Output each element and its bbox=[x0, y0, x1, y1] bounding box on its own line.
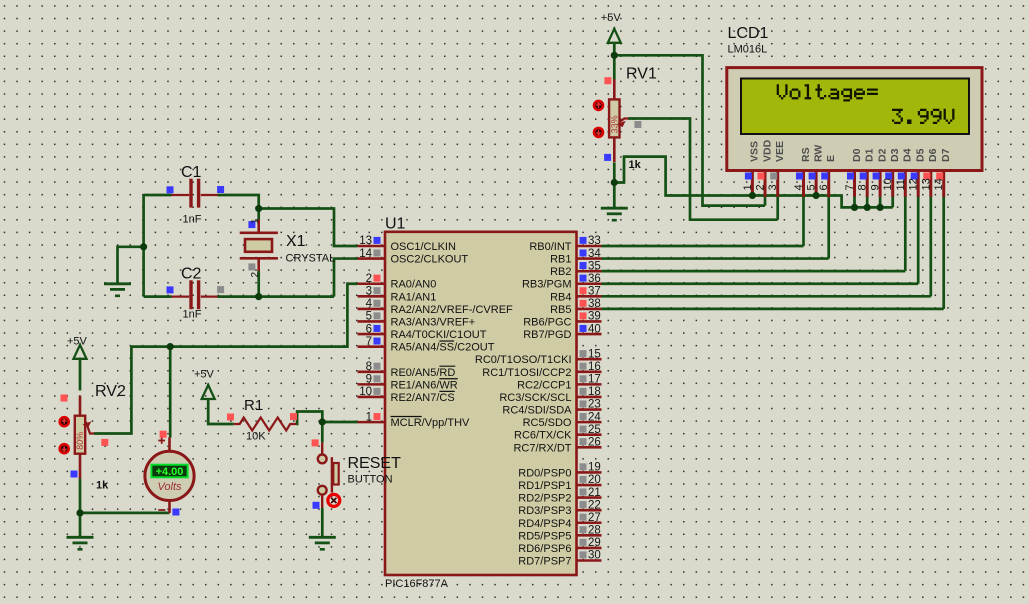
svg-text:1nF: 1nF bbox=[183, 309, 202, 321]
svg-text:D3: D3 bbox=[889, 148, 901, 162]
svg-text:VEE: VEE bbox=[774, 141, 786, 162]
svg-text:33: 33 bbox=[588, 235, 601, 247]
svg-text:RD7/PSP7: RD7/PSP7 bbox=[518, 556, 571, 568]
svg-text:RC7/RX/DT: RC7/RX/DT bbox=[513, 442, 571, 454]
svg-text:3: 3 bbox=[767, 184, 779, 190]
svg-text:9: 9 bbox=[870, 184, 882, 190]
svg-text:R1: R1 bbox=[244, 397, 263, 414]
svg-text:11: 11 bbox=[895, 179, 907, 190]
svg-text:6: 6 bbox=[818, 184, 830, 190]
svg-text:26: 26 bbox=[588, 436, 601, 448]
svg-text:35: 35 bbox=[588, 260, 601, 272]
svg-text:D0: D0 bbox=[851, 148, 863, 162]
svg-text:24: 24 bbox=[588, 411, 601, 423]
svg-text:8: 8 bbox=[366, 361, 372, 373]
svg-text:RA1/AN1: RA1/AN1 bbox=[391, 291, 437, 303]
svg-text:RD6/PSP6: RD6/PSP6 bbox=[518, 543, 571, 555]
svg-text:RD3/PSP3: RD3/PSP3 bbox=[518, 505, 571, 517]
svg-text:RE2/AN7/CS: RE2/AN7/CS bbox=[391, 392, 455, 404]
svg-text:RD5/PSP5: RD5/PSP5 bbox=[518, 530, 571, 542]
svg-text:C1: C1 bbox=[181, 164, 202, 181]
svg-text:RD1/PSP1: RD1/PSP1 bbox=[518, 480, 571, 492]
svg-text:1: 1 bbox=[742, 184, 754, 190]
svg-text:RV2: RV2 bbox=[95, 383, 126, 400]
svg-text:23: 23 bbox=[588, 399, 601, 411]
svg-text:+5V: +5V bbox=[194, 369, 215, 381]
svg-text:RS: RS bbox=[800, 147, 812, 162]
svg-text:D7: D7 bbox=[940, 148, 952, 162]
svg-text:18: 18 bbox=[588, 386, 601, 398]
svg-text:CRYSTAL: CRYSTAL bbox=[286, 253, 336, 265]
svg-text:13: 13 bbox=[920, 178, 932, 190]
svg-text:RA0/AN0: RA0/AN0 bbox=[391, 279, 437, 291]
svg-text:4: 4 bbox=[793, 184, 805, 190]
svg-text:1k: 1k bbox=[629, 159, 642, 171]
svg-text:RB4: RB4 bbox=[550, 291, 571, 303]
svg-text:10: 10 bbox=[359, 386, 372, 398]
svg-text:E: E bbox=[825, 155, 837, 162]
svg-text:9: 9 bbox=[366, 374, 372, 386]
svg-text:2: 2 bbox=[250, 272, 261, 278]
svg-text:Volts: Volts bbox=[157, 481, 182, 493]
svg-text:5: 5 bbox=[366, 311, 372, 323]
svg-text:RV1: RV1 bbox=[626, 66, 657, 83]
svg-text:RC1/T1OSI/CCP2: RC1/T1OSI/CCP2 bbox=[482, 367, 571, 379]
svg-text:RD0/PSP0: RD0/PSP0 bbox=[518, 467, 571, 479]
svg-text:8: 8 bbox=[857, 184, 869, 190]
svg-text:1: 1 bbox=[366, 411, 372, 423]
svg-text:13: 13 bbox=[359, 235, 372, 247]
svg-text:PIC16F877A: PIC16F877A bbox=[385, 578, 449, 590]
svg-text:14: 14 bbox=[359, 248, 372, 260]
svg-text:RA3/AN3/VREF+: RA3/AN3/VREF+ bbox=[391, 316, 476, 328]
svg-text:3: 3 bbox=[366, 286, 372, 298]
svg-text:RE0/AN5/RD: RE0/AN5/RD bbox=[391, 367, 456, 379]
svg-text:VDD: VDD bbox=[761, 139, 773, 162]
svg-text:10K: 10K bbox=[246, 431, 266, 443]
svg-text:RESET: RESET bbox=[348, 455, 402, 472]
svg-text:U1: U1 bbox=[385, 216, 406, 233]
svg-text:RA2/AN2/VREF-/CVREF: RA2/AN2/VREF-/CVREF bbox=[391, 304, 514, 316]
svg-text:RE1/AN6/WR: RE1/AN6/WR bbox=[391, 379, 458, 391]
svg-text:16: 16 bbox=[588, 361, 601, 373]
svg-text:40: 40 bbox=[588, 323, 601, 335]
svg-text:2: 2 bbox=[755, 184, 767, 190]
svg-text:29: 29 bbox=[588, 537, 601, 549]
svg-text:5: 5 bbox=[806, 184, 818, 190]
svg-text:OSC2/CLKOUT: OSC2/CLKOUT bbox=[391, 254, 469, 266]
svg-text:RC3/SCK/SCL: RC3/SCK/SCL bbox=[499, 392, 571, 404]
svg-text:7: 7 bbox=[844, 184, 856, 190]
svg-text:7: 7 bbox=[366, 336, 372, 348]
svg-text:D1: D1 bbox=[864, 148, 876, 162]
svg-text:BUTTON: BUTTON bbox=[348, 474, 393, 486]
svg-text:19: 19 bbox=[588, 462, 601, 474]
svg-text:RC6/TX/CK: RC6/TX/CK bbox=[514, 430, 572, 442]
svg-text:20: 20 bbox=[588, 474, 601, 486]
svg-text:+5V: +5V bbox=[601, 12, 622, 24]
svg-text:D2: D2 bbox=[876, 148, 888, 162]
svg-text:15: 15 bbox=[588, 348, 601, 360]
svg-text:25: 25 bbox=[588, 424, 601, 436]
svg-text:RC0/T1OSO/T1CKI: RC0/T1OSO/T1CKI bbox=[475, 354, 572, 366]
svg-text:D4: D4 bbox=[902, 148, 914, 162]
svg-text:1: 1 bbox=[250, 218, 261, 224]
svg-text:22: 22 bbox=[588, 499, 601, 511]
svg-text:38: 38 bbox=[588, 298, 601, 310]
svg-text:17: 17 bbox=[588, 374, 601, 386]
svg-text:12: 12 bbox=[908, 178, 920, 190]
svg-text:34: 34 bbox=[588, 248, 601, 260]
svg-text:RD2/PSP2: RD2/PSP2 bbox=[518, 493, 571, 505]
svg-text:+5V: +5V bbox=[67, 336, 88, 348]
svg-text:RW: RW bbox=[812, 145, 824, 162]
svg-text:1k: 1k bbox=[96, 480, 109, 492]
svg-text:14: 14 bbox=[933, 178, 945, 190]
svg-text:RC2/CCP1: RC2/CCP1 bbox=[517, 379, 571, 391]
svg-text:1nF: 1nF bbox=[183, 214, 202, 226]
svg-text:RB2: RB2 bbox=[550, 266, 571, 278]
svg-text:2: 2 bbox=[366, 273, 372, 285]
svg-text:LM016L: LM016L bbox=[728, 44, 768, 56]
svg-text:27: 27 bbox=[588, 512, 601, 524]
svg-text:10: 10 bbox=[882, 178, 894, 190]
svg-text:OSC1/CLKIN: OSC1/CLKIN bbox=[391, 241, 456, 253]
svg-text:RC4/SDI/SDA: RC4/SDI/SDA bbox=[502, 405, 572, 417]
svg-text:30: 30 bbox=[588, 550, 601, 562]
svg-text:RB7/PGD: RB7/PGD bbox=[523, 329, 571, 341]
svg-text:RB0/INT: RB0/INT bbox=[529, 241, 571, 253]
svg-text:39: 39 bbox=[588, 311, 601, 323]
svg-text:RB1: RB1 bbox=[550, 254, 571, 266]
svg-text:MCLR/Vpp/THV: MCLR/Vpp/THV bbox=[391, 417, 471, 429]
svg-text:4: 4 bbox=[366, 298, 373, 310]
svg-text:RB5: RB5 bbox=[550, 304, 571, 316]
svg-text:+4.00: +4.00 bbox=[156, 466, 184, 478]
svg-text:C2: C2 bbox=[181, 266, 202, 283]
svg-text:33%: 33% bbox=[609, 115, 619, 133]
svg-text:D5: D5 bbox=[915, 148, 927, 162]
svg-text:RC5/SDO: RC5/SDO bbox=[523, 417, 572, 429]
svg-text:LCD1: LCD1 bbox=[728, 25, 769, 42]
svg-text:37: 37 bbox=[588, 286, 601, 298]
svg-text:80%: 80% bbox=[75, 432, 85, 450]
svg-text:RA4/T0CKI/C1OUT: RA4/T0CKI/C1OUT bbox=[391, 329, 487, 341]
svg-text:RB3/PGM: RB3/PGM bbox=[522, 279, 572, 291]
svg-text:6: 6 bbox=[366, 323, 372, 335]
svg-text:RA5/AN4/SS/C2OUT: RA5/AN4/SS/C2OUT bbox=[391, 342, 495, 354]
svg-text:36: 36 bbox=[588, 273, 601, 285]
svg-text:28: 28 bbox=[588, 525, 601, 537]
svg-text:VSS: VSS bbox=[749, 141, 761, 162]
svg-text:RB6/PGC: RB6/PGC bbox=[523, 316, 571, 328]
svg-text:X1: X1 bbox=[286, 233, 306, 250]
svg-text:D6: D6 bbox=[927, 148, 939, 162]
svg-text:RD4/PSP4: RD4/PSP4 bbox=[518, 518, 571, 530]
svg-text:21: 21 bbox=[588, 487, 601, 499]
